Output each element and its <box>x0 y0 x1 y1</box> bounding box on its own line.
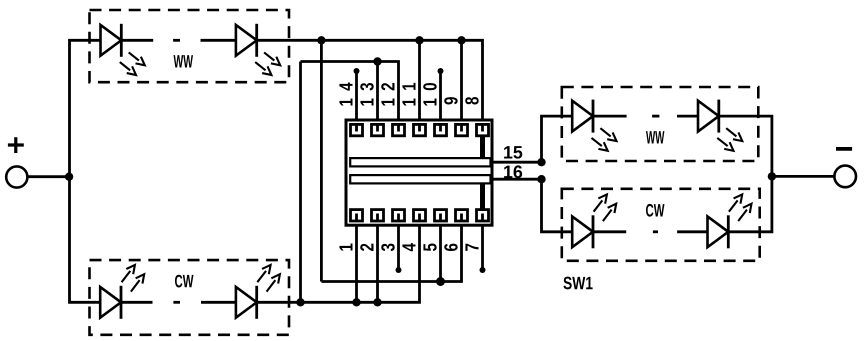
dashed box CW left <box>90 260 290 335</box>
IC U1 pin 10 contact square <box>435 124 447 135</box>
wire continuation dash CW right <box>653 230 658 233</box>
wire D2 anode segment <box>201 39 236 42</box>
label WW right <box>646 131 664 143</box>
wire continuation dash CW left <box>173 301 180 304</box>
label WW left <box>174 55 193 67</box>
LED D8 <box>708 194 752 248</box>
dashed box WW right <box>562 87 759 161</box>
node top bus / vertical B junction <box>317 36 325 44</box>
LED D4 <box>236 265 280 319</box>
IC U1 pin 1 contact square <box>351 210 363 221</box>
node pin 3 stub end dot <box>396 267 402 273</box>
IC U1 pin 5 lead stub <box>439 214 442 222</box>
pin label 14 <box>339 82 352 105</box>
wire pin 1 <box>355 220 358 302</box>
pin label 10 <box>423 83 436 106</box>
wire D6 anode segment <box>677 115 698 118</box>
wire pin 14 stub <box>355 71 358 125</box>
wire + terminal to node P <box>28 175 70 178</box>
wire D3 cathode segment <box>121 301 153 304</box>
wire output to - terminal <box>772 175 835 178</box>
IC U1 pin 4 lead stub <box>418 214 421 222</box>
node pin 14 stub end dot <box>354 68 360 74</box>
wire pin 10 stub <box>439 71 442 125</box>
node pin 7 stub end dot <box>480 267 486 273</box>
LED D7 <box>572 194 616 248</box>
pin label 7 <box>465 244 478 251</box>
wire D5 cathode segment <box>593 115 627 118</box>
wire top bus WW row to pin 8 <box>257 40 483 125</box>
terminal + circle <box>6 166 27 187</box>
IC U1 pin 8 contact square <box>477 124 489 135</box>
IC U1 pin 14 lead stub <box>355 124 358 132</box>
LED D1 <box>101 24 145 75</box>
wire D7 cathode segment <box>593 230 626 233</box>
label CW left <box>175 275 194 288</box>
IC U1 pin 12 contact square <box>393 124 405 135</box>
IC U1 pin 9 lead stub <box>460 124 463 132</box>
IC U1 pin 10 lead stub <box>439 124 442 132</box>
IC U1 pin 13 lead stub <box>376 124 379 132</box>
wire pin 13 <box>376 62 379 126</box>
wire pin 11 <box>418 40 421 125</box>
IC U1 pin 3 lead stub <box>397 214 400 222</box>
pin label 6 <box>444 244 457 251</box>
IC U1 pin 3 contact square <box>393 210 405 221</box>
LED D6 <box>698 100 742 151</box>
IC U1 common bar 15 <box>350 158 490 166</box>
IC U1 pin 14 contact square <box>351 124 363 135</box>
IC U1 pin 11 lead stub <box>418 124 421 132</box>
pin label 11 <box>402 83 415 106</box>
node second top line / pin 13 junction <box>373 57 381 65</box>
node output junction dot <box>768 172 776 180</box>
pin label 5 <box>423 243 436 251</box>
IC U1 pin 5 contact square <box>435 210 447 221</box>
node bottom bus / pin 1 junction <box>352 298 360 306</box>
LED D2 <box>236 24 280 75</box>
wire positive rail down to CW row <box>70 177 101 303</box>
wire 15 from bar to node <box>491 161 542 164</box>
node bottom bus / vertical A junction <box>296 298 304 306</box>
IC U1 common bar 16 <box>350 175 490 183</box>
IC U1 pin 2 lead stub <box>376 214 379 222</box>
wire bottom bus CW row to pin 4 <box>257 220 420 302</box>
dashed box WW left <box>90 10 290 82</box>
wire pin 9 <box>460 40 463 125</box>
node 16 junction dot <box>537 175 545 183</box>
wire 16 from bar to node <box>491 178 542 181</box>
node top bus / pin 11 junction <box>415 36 423 44</box>
wire pin 2 <box>376 220 379 302</box>
wire D8 anode segment <box>677 230 707 233</box>
pin label 9 <box>444 97 457 104</box>
wire vertical B <box>320 40 323 281</box>
pin label 2 <box>360 244 373 251</box>
wire 16 down to right CW row <box>542 179 573 232</box>
wire D1 cathode segment <box>121 39 153 42</box>
IC U1 pin 8 lead stub <box>481 124 484 132</box>
terminal + symbol <box>8 137 24 153</box>
node P junction dot <box>65 173 73 181</box>
wire pin 5 <box>439 220 442 282</box>
LED D3 <box>100 265 144 319</box>
node second bottom line / pin 5 junction <box>436 277 445 286</box>
IC U1 pin 6 lead stub <box>460 214 463 222</box>
IC U1 pin 7 lead stub <box>481 214 484 222</box>
wire pin 7 stub <box>481 220 484 270</box>
IC U1 pin 4 contact square <box>414 210 426 221</box>
IC U1 pin 12 lead stub <box>397 124 400 132</box>
label CW right <box>646 204 665 217</box>
IC U1 pin 9 contact square <box>456 124 468 135</box>
IC U1 body <box>346 120 492 225</box>
dashed box CW right <box>562 189 760 261</box>
IC U1 pin 7 contact square <box>477 210 489 221</box>
pin label 8 <box>465 97 478 105</box>
IC U1 pin 11 contact square <box>414 124 426 135</box>
label SW1 <box>563 277 592 290</box>
pin label 16 <box>504 165 522 178</box>
pin label 15 <box>504 146 522 159</box>
node top bus / pin 9 junction <box>457 36 465 44</box>
wire pin 3 stub <box>397 220 400 270</box>
wire continuation dash WW right <box>652 115 659 118</box>
IC U1 pin 1 lead stub <box>355 214 358 222</box>
wire 15 up to right WW row <box>542 116 573 162</box>
IC U1 pin 13 contact square <box>372 124 384 135</box>
wire continuation dash WW left <box>173 39 180 42</box>
terminal - symbol <box>836 147 852 151</box>
pin label 13 <box>360 83 373 106</box>
node bottom bus / pin 2 junction <box>373 298 381 306</box>
wire WW right row to output vertical <box>719 116 772 176</box>
IC U1 pin 2 contact square <box>372 210 384 221</box>
pin label 12 <box>381 83 394 106</box>
IC U1 pin 8 internal thick link <box>480 134 485 160</box>
wire second top line to pin 12 <box>301 62 399 126</box>
pin label 3 <box>381 244 394 252</box>
IC U1 pin 7 internal thick link <box>480 182 485 211</box>
terminal - circle <box>834 166 856 188</box>
wire D4 anode segment <box>201 301 236 304</box>
node pin 10 stub end dot <box>438 68 444 74</box>
pin label 1 <box>339 243 352 250</box>
node 15 junction dot <box>537 158 545 166</box>
wire CW right row to output vertical <box>728 176 772 231</box>
wire vertical A <box>299 62 302 303</box>
LED D5 <box>572 100 616 151</box>
pin label 4 <box>402 243 415 251</box>
IC U1 pin 6 contact square <box>456 210 468 221</box>
wire second bottom line pin 6 <box>321 220 461 282</box>
wire positive rail up to WW row <box>70 40 101 176</box>
